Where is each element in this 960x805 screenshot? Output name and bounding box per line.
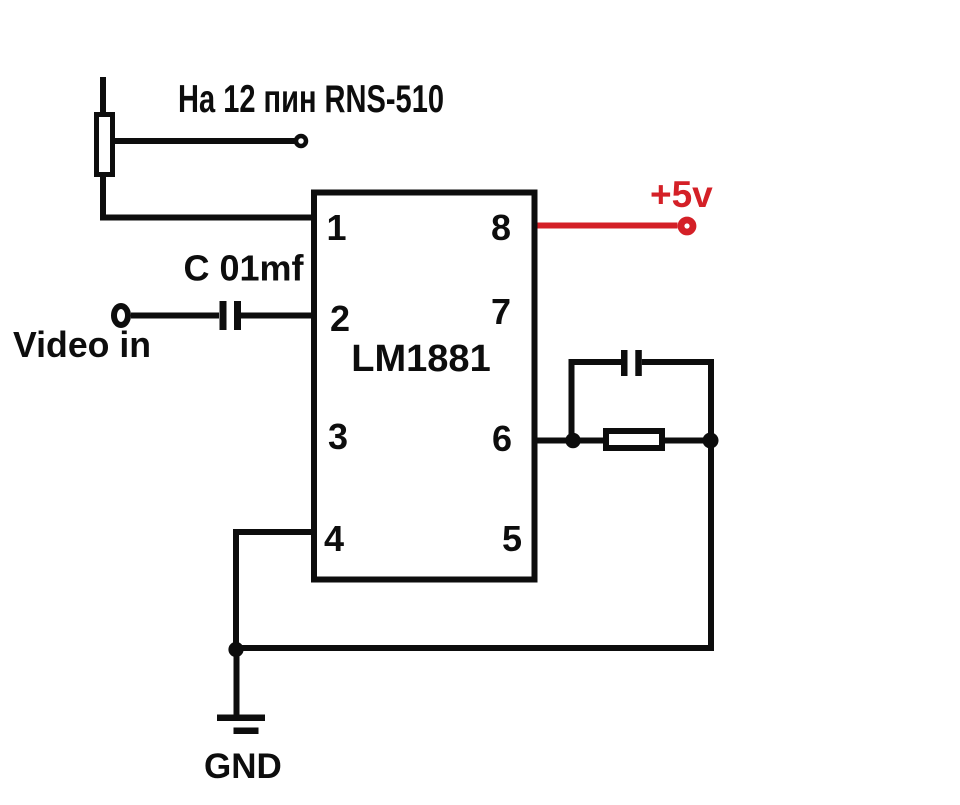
wire: top of C2 loop, right segment	[642, 359, 714, 365]
svg-text:GND: GND	[204, 747, 282, 786]
wire: bottom ground rail	[236, 645, 713, 651]
junction: ground node	[228, 642, 243, 657]
ground symbol	[217, 715, 265, 722]
svg-text:2: 2	[330, 298, 350, 339]
svg-text:+5v: +5v	[650, 174, 713, 215]
wire: top of C2 loop, left segment	[569, 359, 622, 365]
svg-text:Video in: Video in	[13, 324, 151, 365]
terminal: +5v supply	[681, 220, 693, 232]
capacitor C1 (C 01mf) plates	[220, 301, 227, 330]
svg-text:6: 6	[492, 418, 512, 459]
wire: ground node down to ground symbol	[234, 648, 240, 715]
wire: pin 4 out to the left	[233, 529, 313, 535]
svg-text:7: 7	[491, 291, 511, 332]
svg-text:8: 8	[491, 207, 511, 248]
wire: stub above resistor R1	[100, 77, 106, 114]
svg-text:3: 3	[328, 416, 348, 457]
wire: resistor R2 to right junction	[665, 438, 711, 444]
junction: node at pin 6	[565, 433, 580, 448]
terminal: output to pin 12 of RNS-510	[296, 136, 306, 146]
svg-text:На 12 пин RNS-510: На 12 пин RNS-510	[178, 78, 444, 121]
svg-text:5: 5	[502, 518, 522, 559]
svg-text:C 01mf: C 01mf	[184, 248, 305, 289]
wire: junction to resistor R2	[573, 438, 606, 444]
junction: node right of R2	[703, 433, 719, 449]
wire: Video in terminal to capacitor C1	[131, 313, 219, 319]
op-amp U1 LM1881 body	[314, 193, 535, 580]
terminal: Video in	[114, 306, 128, 325]
svg-text:1: 1	[326, 207, 346, 248]
resistor R1 (vertical, top-left)	[97, 115, 113, 175]
capacitor C2 plates	[621, 350, 628, 376]
wire: pin 4 vertical down	[233, 529, 239, 651]
wire: pin 6 out	[537, 438, 576, 444]
wire: to pin 1 of LM1881	[100, 215, 312, 221]
wire: left vertical of C2 loop	[569, 359, 575, 441]
svg-text:LM1881: LM1881	[351, 338, 490, 380]
resistor R2 (horizontal)	[606, 431, 662, 448]
svg-text:4: 4	[324, 518, 344, 559]
wire: resistor R1 to RNS-510 terminal	[115, 138, 296, 144]
wire: pin 8 to +5v terminal (red)	[538, 223, 678, 229]
wire: capacitor C1 to pin 2	[241, 313, 312, 319]
wire: resistor R1 down	[100, 174, 106, 221]
wire: right vertical down to ground rail	[708, 359, 714, 651]
